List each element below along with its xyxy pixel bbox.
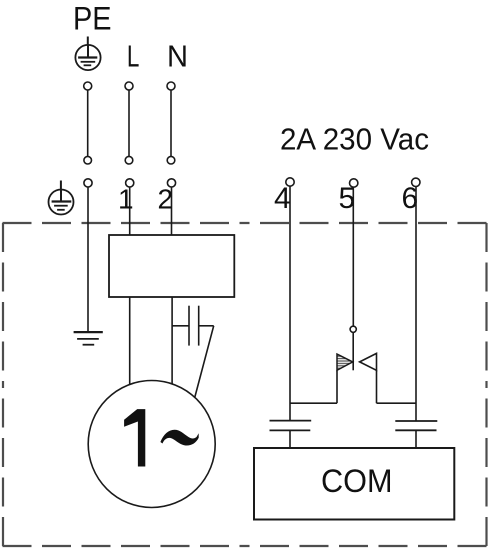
svg-text:PE: PE: [73, 1, 112, 37]
svg-text:2A 230 Vac: 2A 230 Vac: [280, 123, 429, 157]
svg-text:COM: COM: [321, 463, 393, 499]
svg-text:N: N: [167, 39, 188, 74]
svg-text:4: 4: [274, 182, 291, 215]
svg-text:L: L: [127, 39, 139, 74]
svg-text:1: 1: [118, 184, 134, 215]
svg-text:2: 2: [158, 184, 174, 215]
